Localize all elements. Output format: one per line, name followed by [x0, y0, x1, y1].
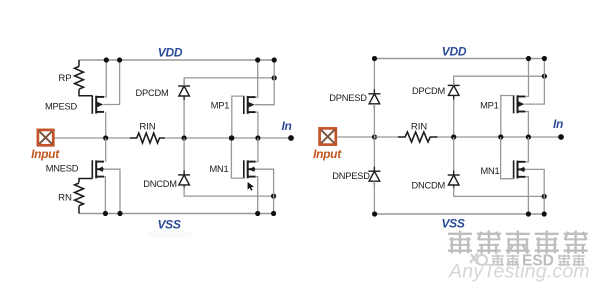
node: MP1/MN1 drain junction on input line (left): [255, 135, 260, 140]
node: DNCDM anode junction with MN1 body column (right): [542, 194, 547, 199]
wire: MN1 gate to input line (right): [501, 137, 514, 179]
wire: input line to DPCDM anode: [183, 96, 185, 138]
wire: MP1 body column to VDD (left): [255, 60, 274, 105]
label MN1 (left): [209, 164, 228, 174]
transistor MPESD (PMOS): [92, 96, 104, 114]
transistor MN1 (left, NMOS): [244, 160, 256, 178]
node: VDD rail left end junction (right): [372, 56, 377, 61]
wire: MN1 drain up to input line (left): [256, 138, 258, 162]
svg-text:Input: Input: [31, 147, 60, 161]
node: MPESD source junction on VDD rail: [104, 57, 109, 62]
label MP1 (left): [211, 101, 230, 111]
svg-text:In: In: [553, 117, 563, 131]
wire: MP1 source to VDD (right): [525, 59, 528, 97]
wire: MN1 source to VSS (right): [525, 177, 528, 214]
diode DPNESD: [368, 89, 380, 108]
wire: RIN to In terminal (right signal line): [438, 136, 561, 138]
input pad symbol (right, bond pad with X): [320, 128, 336, 144]
svg-text:In: In: [281, 119, 291, 133]
net label VDD (left): [158, 46, 183, 60]
svg-text:DPCDM: DPCDM: [412, 86, 445, 96]
resistor RIN (left): [130, 133, 165, 143]
wire: MPESD body to VDD: [103, 60, 119, 105]
resistor RP: [75, 60, 93, 96]
wire: MNESD gate to RN: [79, 179, 92, 183]
wire: signal segment pad-column to RIN (right): [375, 136, 399, 138]
label DNPESD: [332, 171, 370, 181]
label MPESD: [45, 101, 78, 111]
wire: MP1 drain down to input line (right): [525, 112, 528, 138]
svg-text:DPCDM: DPCDM: [135, 88, 168, 98]
node: DPCDM/DNCDM column junction on input line (left): [182, 135, 187, 140]
svg-text:MP1: MP1: [211, 101, 230, 111]
watermark text (site logo, large gray): [448, 231, 588, 254]
label MNESD: [46, 164, 79, 174]
node: VSS rail right end junction (right): [542, 211, 547, 216]
diode DNCDM (left): [178, 170, 190, 189]
svg-text:RIN: RIN: [139, 122, 155, 133]
power rail VDD (right circuit) wire: [375, 58, 545, 60]
svg-text:MN1: MN1: [209, 164, 228, 174]
wire: MP1 gate to input line (right): [501, 96, 514, 138]
wire: input line to DNCDM cathode (right): [453, 137, 455, 175]
wire: MNESD source to VSS: [104, 177, 105, 214]
transistor MNESD (NMOS): [92, 160, 104, 178]
wire: MP1 gate to input line (left): [232, 96, 244, 138]
wire: RN bottom to VSS rail: [78, 206, 80, 214]
svg-text:MPESD: MPESD: [45, 101, 78, 111]
svg-text:VSS: VSS: [157, 218, 180, 232]
label DNCDM (left): [143, 179, 177, 189]
svg-text:VDD: VDD: [442, 45, 467, 59]
wire: MN1 body column to VSS (left): [255, 169, 274, 213]
transistor MP1 (right, PMOS): [514, 95, 526, 113]
node: MP1 gate junction on input line (right): [498, 134, 503, 139]
diode DNPESD: [368, 167, 380, 186]
wire: DNCDM anode down and right to MN1 body column (left): [184, 187, 274, 196]
power rail VSS (right circuit) wire: [375, 213, 545, 215]
node label Input (right): [313, 147, 342, 161]
net label In (left): [281, 119, 291, 133]
value label RN: [58, 192, 72, 203]
value label RIN (left): [139, 122, 155, 133]
svg-text:VSS: VSS: [441, 216, 464, 230]
node: DPCDM/DNCDM column junction on input line (right): [451, 134, 456, 139]
wire: DPCDM cathode up and right to VDD net (right): [454, 76, 545, 85]
node: MPESD/MNESD drain junction on input line: [103, 135, 108, 140]
wire: DNPESD anode down to VSS rail: [373, 181, 375, 214]
node label Input (left): [31, 147, 60, 161]
svg-text:DPNESD: DPNESD: [329, 93, 367, 103]
wire: MPESD source to VDD: [104, 60, 106, 97]
node: MP1 source junction on VDD rail (right): [526, 56, 531, 61]
svg-text:DNCDM: DNCDM: [143, 179, 177, 189]
value label RIN (right): [411, 122, 427, 133]
wire: DNCDM anode down and right to MN1 body column (right): [454, 187, 545, 196]
net label VSS (right): [441, 216, 464, 230]
wire: DPCDM cathode up and right to VDD net: [184, 78, 274, 86]
wire: RIN to In terminal (left signal line): [166, 137, 292, 139]
label DPCDM (left): [135, 88, 168, 98]
power rail VDD (left circuit) wire: [79, 59, 274, 61]
node: MNESD body junction on VSS rail: [117, 211, 122, 216]
faint smudge artifact: [148, 230, 192, 239]
node: DPCDM cathode junction with MP1 body column (left): [272, 75, 277, 80]
node: MP1 gate junction on input line (left): [229, 135, 234, 140]
wire: MPESD drain down to input line: [105, 112, 107, 138]
resistor RN: [75, 183, 84, 206]
node: MP1 source junction on VDD rail (left): [255, 57, 260, 62]
svg-text:MNESD: MNESD: [46, 164, 79, 174]
label DNCDM (right): [411, 180, 445, 190]
label DPCDM (right): [412, 86, 445, 96]
svg-text:Input: Input: [313, 147, 342, 161]
svg-text:DNPESD: DNPESD: [332, 171, 370, 181]
wire: MP1 drain down to input line (left): [256, 112, 258, 138]
diode DPCDM (left): [178, 82, 190, 101]
diode DNCDM (right): [448, 171, 460, 190]
resistor RIN (right): [398, 132, 438, 142]
wire: right pad to DPNESD column: [338, 136, 375, 138]
node: MN1 gate junction on input line (left): [229, 135, 234, 140]
node: DPCDM cathode junction with MP1 body column (right): [542, 74, 547, 79]
value label RP: [58, 73, 71, 84]
input pad symbol (left, bond pad with X): [38, 130, 53, 145]
node: VSS rail left end junction (right): [372, 211, 377, 216]
power rail VSS (left circuit) wire: [79, 213, 274, 215]
terminal node In (right): output dot: [558, 134, 564, 140]
net label VSS (left): [157, 218, 180, 232]
node: MNESD source junction on VSS rail: [103, 211, 108, 216]
watermark text (blog name with logo icon): [470, 253, 585, 270]
label MN1 (right): [480, 166, 499, 176]
wire: input line down to DNPESD cathode: [373, 137, 375, 171]
svg-text:MP1: MP1: [480, 101, 499, 111]
transistor MN1 (right, NMOS): [514, 160, 526, 178]
node: MN1 source junction on VSS rail (right): [526, 211, 531, 216]
wire: DPNESD anode down to input line: [373, 104, 375, 137]
svg-text:RIN: RIN: [411, 122, 427, 133]
node: VDD rail right end junction (left): [272, 57, 277, 62]
wire: MN1 body column to VSS (right): [525, 169, 544, 214]
wire: left pad to RIN / signal segment: [55, 137, 131, 139]
node: MPESD body junction on VDD rail: [117, 57, 122, 62]
wire: MP1 source to VDD (left): [256, 60, 258, 97]
node: DPNESD/DNPESD column junction on input line (right): [372, 134, 377, 139]
node: MN1 source junction on VSS rail (left): [255, 211, 260, 216]
wire: MNESD drain up to input line: [105, 138, 107, 162]
node: DNCDM anode junction with MN1 body column (left): [271, 194, 276, 199]
wire: input line to DNCDM cathode: [183, 138, 185, 175]
wire: MN1 drain up to input line (right): [525, 137, 528, 162]
node: VSS rail right end junction (left): [271, 211, 276, 216]
wire: MNESD body to VSS: [103, 169, 120, 213]
wire: input line to DPCDM anode (right): [453, 95, 455, 137]
svg-text:RN: RN: [58, 192, 72, 203]
net label In (right): [553, 117, 563, 131]
wire: MN1 source to VSS (left): [256, 177, 258, 214]
watermark text AnyTesting.com: [448, 261, 590, 283]
wire: VDD rail to DPNESD cathode: [373, 59, 375, 94]
svg-text:VDD: VDD: [158, 46, 183, 60]
label MP1 (right): [480, 101, 499, 111]
transistor MP1 (left, PMOS): [244, 96, 256, 114]
svg-text:RP: RP: [58, 73, 71, 84]
label DPNESD: [329, 93, 367, 103]
svg-text:AnyTesting.com: AnyTesting.com: [448, 261, 590, 283]
node: VDD rail right end junction (right): [542, 56, 547, 61]
node: MP1/MN1 drain junction on input line (right): [526, 134, 531, 139]
wire: MN1 gate to input line (left): [231, 138, 243, 178]
diode DPCDM (right): [448, 81, 460, 100]
net label VDD (right): [442, 45, 467, 59]
mouse cursor artifact: [248, 182, 254, 191]
svg-text:DNCDM: DNCDM: [411, 180, 445, 190]
wire: MP1 body column to VDD (right): [525, 59, 545, 105]
svg-text:MN1: MN1: [480, 166, 499, 176]
terminal node In (left): output dot: [288, 135, 294, 141]
